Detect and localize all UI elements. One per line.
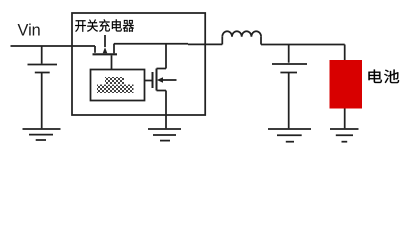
svg-text:Vin: Vin	[18, 22, 41, 40]
